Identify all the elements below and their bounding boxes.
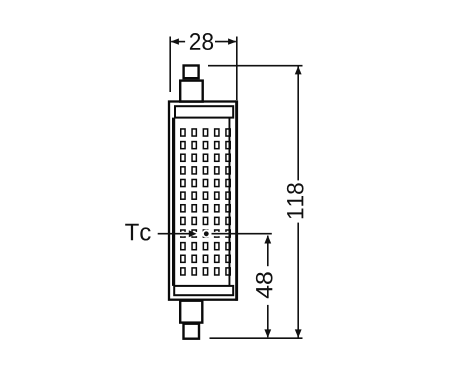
Tc label bbox=[125, 224, 150, 241]
Tc line right segment bbox=[212, 233, 272, 235]
inner right tube line bbox=[228, 118, 230, 286]
dimension 28: left arrowhead bbox=[171, 38, 179, 44]
body right edge thicker bbox=[235, 100, 238, 300]
white halo of Tc pointer over grid bbox=[176, 232, 228, 236]
Tc pointer arrowhead bbox=[189, 230, 197, 237]
bottom pin bbox=[184, 324, 200, 339]
top pin bbox=[184, 66, 199, 79]
top neck bbox=[180, 81, 203, 102]
dimension 118: label (rotated) bbox=[287, 183, 304, 218]
dimension 28: right extension line bbox=[236, 37, 238, 101]
lamp body outline bbox=[169, 102, 237, 300]
bottom extension line bbox=[210, 337, 303, 339]
dimension 48: label (rotated) bbox=[256, 272, 273, 298]
dimension 48: top arrowhead bbox=[264, 235, 271, 243]
Tc pointer arrow bbox=[158, 233, 190, 235]
dimension 28: label bbox=[190, 33, 213, 50]
dimension 48: line + arrows bbox=[267, 236, 269, 338]
dimension 28: line + arrows bbox=[171, 41, 236, 43]
dimension 48: bottom arrowhead bbox=[264, 329, 271, 337]
dimension 28: right arrowhead bbox=[228, 38, 236, 44]
dimension 118: top arrowhead bbox=[295, 66, 302, 74]
Tc dot bbox=[204, 231, 209, 236]
dimension 118: top extension line bbox=[208, 65, 303, 67]
bottom cap band bbox=[174, 286, 233, 295]
top cap band bbox=[175, 106, 233, 117]
dimension 118: bottom arrowhead bbox=[295, 329, 302, 337]
dimension 118: line + arrows bbox=[297, 67, 299, 338]
dimension 28: left extension line bbox=[169, 37, 171, 93]
bottom neck bbox=[180, 301, 202, 323]
inner left tube line bbox=[172, 118, 175, 286]
LED grid bbox=[181, 129, 231, 275]
